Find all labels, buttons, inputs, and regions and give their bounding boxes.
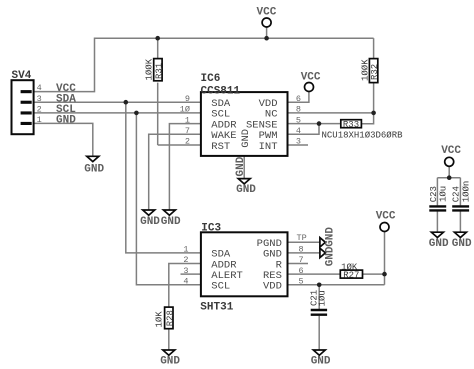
svg-text:GND: GND (84, 164, 104, 176)
svg-text:2: 2 (183, 255, 188, 265)
svg-text:R28: R28 (166, 310, 176, 326)
svg-text:9: 9 (185, 94, 190, 104)
svg-text:VCC: VCC (301, 71, 321, 83)
svg-text:C24: C24 (452, 186, 462, 202)
svg-text:1ØK: 1ØK (154, 311, 164, 328)
svg-text:GND: GND (56, 115, 76, 127)
svg-text:R27: R27 (343, 270, 359, 280)
svg-text:NCU18XH1Ø3D6ØRB: NCU18XH1Ø3D6ØRB (322, 131, 404, 141)
svg-text:IC6: IC6 (201, 73, 221, 85)
svg-text:4: 4 (37, 83, 42, 93)
svg-text:8: 8 (296, 105, 301, 115)
svg-text:GND: GND (325, 227, 337, 247)
svg-text:GND: GND (311, 356, 331, 368)
svg-text:3: 3 (183, 266, 188, 276)
svg-text:6: 6 (299, 266, 304, 276)
svg-text:3: 3 (296, 137, 301, 147)
svg-text:1: 1 (183, 245, 188, 255)
svg-text:SV4: SV4 (12, 70, 32, 82)
svg-text:1ØØK: 1ØØK (360, 59, 370, 81)
svg-text:RST: RST (211, 141, 230, 153)
svg-text:TP: TP (297, 233, 307, 243)
svg-text:1ØØK: 1ØØK (145, 58, 155, 80)
svg-text:4: 4 (183, 277, 188, 287)
svg-text:3: 3 (37, 94, 42, 104)
svg-text:GND: GND (160, 356, 180, 368)
svg-text:1Øu: 1Øu (439, 186, 449, 202)
svg-text:SCL: SCL (211, 281, 230, 293)
svg-text:GND: GND (240, 129, 252, 148)
svg-text:SHT31: SHT31 (200, 301, 233, 313)
svg-text:GND: GND (325, 246, 337, 266)
svg-text:INT: INT (259, 141, 278, 153)
svg-text:1ØØn: 1ØØn (462, 181, 472, 203)
svg-text:1Ø: 1Ø (180, 105, 190, 115)
svg-text:1: 1 (37, 115, 42, 125)
svg-text:5: 5 (296, 115, 301, 125)
svg-text:1: 1 (185, 115, 190, 125)
svg-text:R32: R32 (370, 64, 380, 80)
svg-text:2: 2 (185, 137, 190, 147)
svg-text:GND: GND (452, 238, 472, 250)
svg-text:GND: GND (161, 216, 181, 228)
svg-text:4: 4 (296, 126, 301, 136)
svg-text:CCS811: CCS811 (201, 86, 241, 98)
svg-text:VCC: VCC (376, 211, 396, 223)
svg-text:1Øu: 1Øu (318, 290, 328, 306)
svg-text:7: 7 (299, 255, 304, 265)
svg-text:2: 2 (37, 105, 42, 115)
svg-text:6: 6 (296, 94, 301, 104)
svg-text:5: 5 (299, 277, 304, 287)
svg-text:VCC: VCC (257, 7, 277, 19)
svg-text:VCC: VCC (441, 145, 461, 157)
svg-text:IC3: IC3 (201, 223, 221, 235)
svg-text:R31: R31 (154, 63, 164, 79)
svg-text:GND: GND (235, 156, 247, 176)
svg-text:R33: R33 (343, 120, 359, 130)
svg-text:GND: GND (236, 184, 256, 196)
svg-text:GND: GND (140, 216, 160, 228)
svg-text:GND: GND (429, 238, 449, 250)
svg-text:8: 8 (299, 245, 304, 255)
svg-text:7: 7 (185, 126, 190, 136)
svg-text:VDD: VDD (263, 281, 282, 293)
svg-text:C23: C23 (429, 186, 439, 202)
